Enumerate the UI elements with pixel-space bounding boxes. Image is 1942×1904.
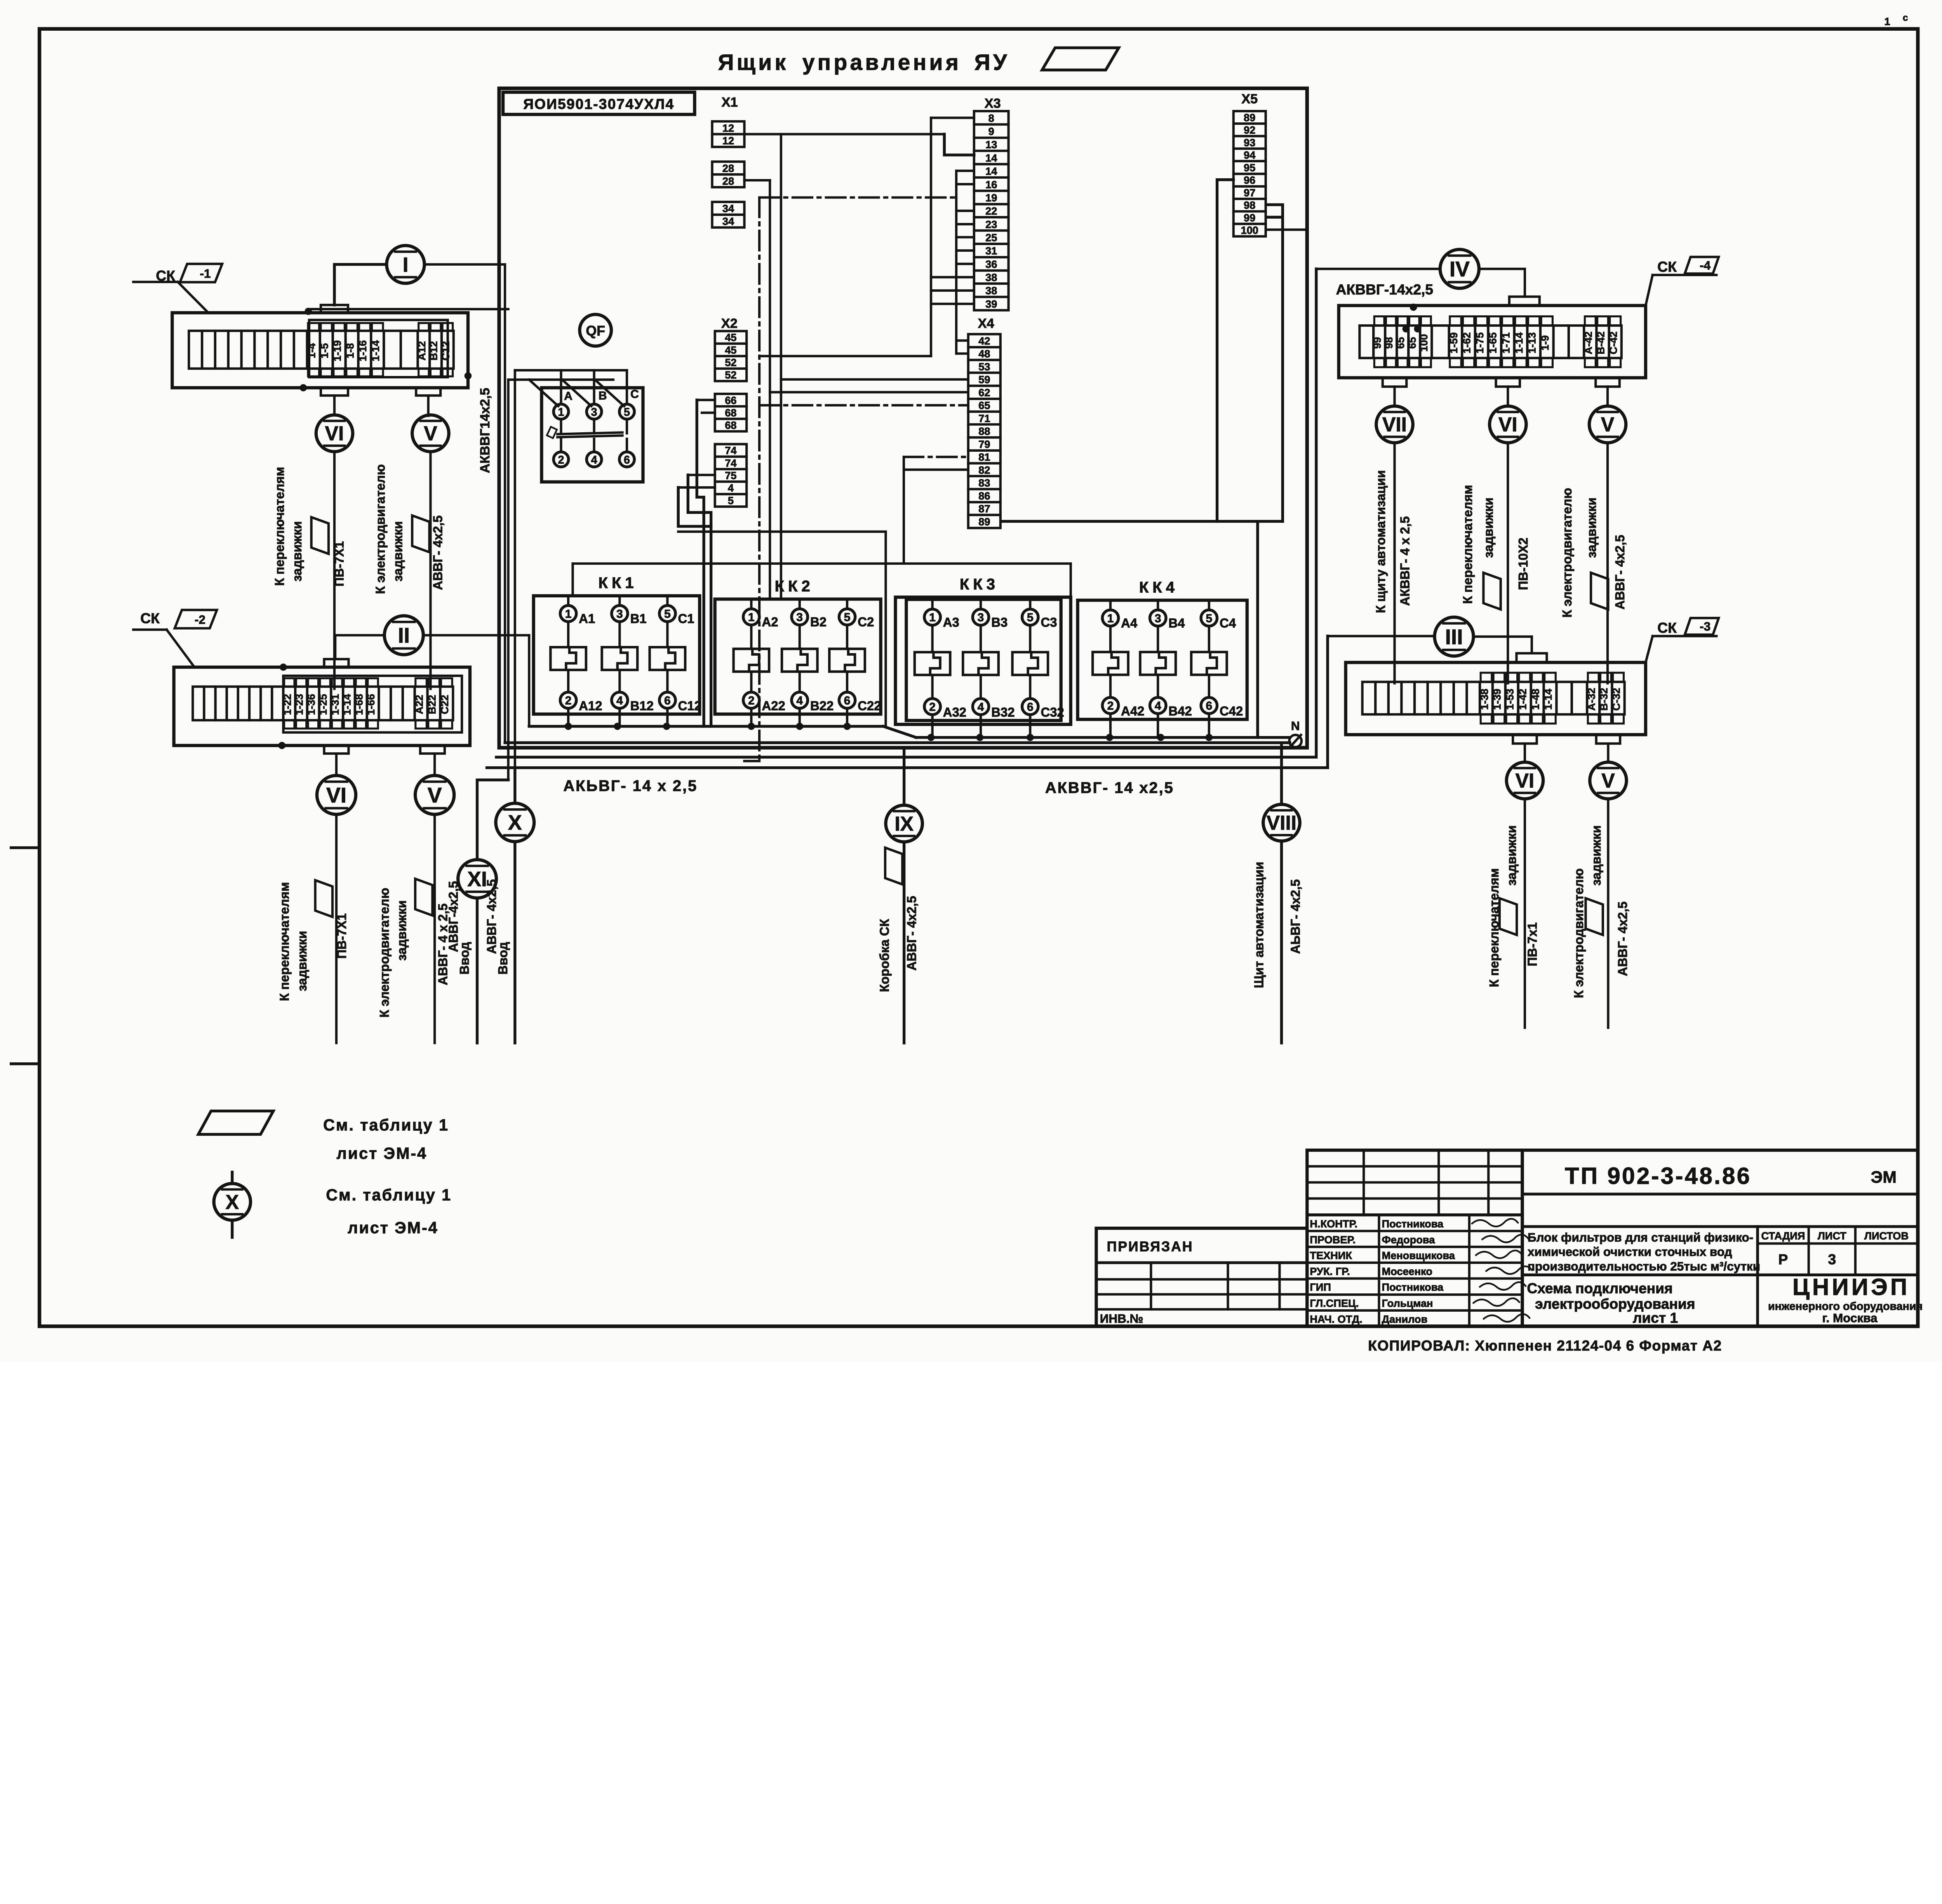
svg-text:V: V bbox=[428, 783, 442, 807]
svg-text:82: 82 bbox=[978, 464, 990, 476]
svg-text:инженерного оборудования: инженерного оборудования bbox=[1768, 1300, 1923, 1312]
svg-text:5: 5 bbox=[728, 494, 734, 506]
svg-text:Р: Р bbox=[1778, 1251, 1788, 1267]
svg-text:А3: А3 bbox=[943, 615, 959, 629]
svg-text:VII: VII bbox=[1382, 413, 1407, 436]
svg-text:I: I bbox=[403, 253, 409, 276]
svg-text:1-25: 1-25 bbox=[317, 694, 329, 715]
svg-text:52: 52 bbox=[725, 357, 736, 369]
svg-text:Данилов: Данилов bbox=[1382, 1313, 1428, 1325]
svg-text:В2: В2 bbox=[810, 615, 827, 629]
svg-text:II: II bbox=[398, 623, 410, 647]
svg-text:2: 2 bbox=[1107, 700, 1114, 712]
svg-text:1-14: 1-14 bbox=[369, 340, 381, 361]
svg-text:С22: С22 bbox=[439, 695, 451, 714]
svg-text:3: 3 bbox=[1828, 1251, 1836, 1267]
svg-text:74: 74 bbox=[725, 444, 736, 456]
svg-text:3: 3 bbox=[1155, 612, 1161, 625]
svg-text:А: А bbox=[564, 390, 573, 403]
svg-text:Схема подключения: Схема подключения bbox=[1527, 1280, 1672, 1297]
svg-text:ПВ-7Х1: ПВ-7Х1 bbox=[332, 541, 346, 587]
svg-text:А22: А22 bbox=[413, 695, 425, 714]
svg-text:VI: VI bbox=[1498, 413, 1517, 436]
svg-text:4: 4 bbox=[616, 694, 623, 707]
svg-text:АКЬВГ- 14 х 2,5: АКЬВГ- 14 х 2,5 bbox=[563, 778, 698, 795]
svg-text:задвижки: задвижки bbox=[290, 521, 304, 581]
svg-text:ТЕХНИК: ТЕХНИК bbox=[1310, 1250, 1352, 1262]
svg-text:ПВ-7Х1: ПВ-7Х1 bbox=[334, 913, 349, 959]
svg-text:С4: С4 bbox=[1220, 616, 1236, 630]
svg-text:98: 98 bbox=[1383, 337, 1395, 349]
svg-text:6: 6 bbox=[1027, 701, 1034, 714]
svg-text:с: с bbox=[1903, 13, 1908, 23]
svg-text:К электродвигателю: К электродвигателю bbox=[1571, 868, 1586, 998]
svg-text:86: 86 bbox=[978, 490, 990, 502]
svg-text:45: 45 bbox=[725, 331, 736, 343]
svg-text:АКВВГ14х2,5: АКВВГ14х2,5 bbox=[478, 388, 492, 473]
svg-text:65: 65 bbox=[978, 399, 990, 411]
svg-text:59: 59 bbox=[978, 374, 990, 386]
svg-text:1-14: 1-14 bbox=[1513, 332, 1525, 353]
svg-text:задвижки: задвижки bbox=[1584, 498, 1599, 558]
svg-text:1-23: 1-23 bbox=[293, 694, 305, 715]
svg-text:ТП 902-3-48.86: ТП 902-3-48.86 bbox=[1565, 1163, 1751, 1189]
svg-text:ПРИВЯЗАН: ПРИВЯЗАН bbox=[1107, 1239, 1194, 1255]
svg-text:С1: С1 bbox=[678, 611, 694, 626]
svg-text:19: 19 bbox=[985, 191, 997, 204]
svg-text:химической очистки сточных вод: химической очистки сточных вод bbox=[1528, 1245, 1732, 1259]
svg-text:Ввод: Ввод bbox=[496, 942, 510, 975]
svg-text:АКВВГ- 4 х 2,5: АКВВГ- 4 х 2,5 bbox=[1397, 516, 1412, 606]
svg-text:РУК. ГР.: РУК. ГР. bbox=[1310, 1265, 1350, 1277]
svg-text:Постникова: Постникова bbox=[1382, 1218, 1444, 1230]
svg-text:1-59: 1-59 bbox=[1448, 332, 1460, 353]
svg-text:задвижки: задвижки bbox=[295, 931, 309, 991]
svg-text:АВВГ- 4х2,5: АВВГ- 4х2,5 bbox=[1613, 535, 1627, 609]
svg-text:X: X bbox=[508, 811, 522, 834]
svg-text:3: 3 bbox=[978, 611, 984, 624]
svg-text:100: 100 bbox=[1418, 334, 1430, 352]
svg-text:3: 3 bbox=[796, 611, 803, 624]
svg-text:В: В bbox=[599, 389, 607, 402]
svg-text:IV: IV bbox=[1450, 257, 1470, 281]
svg-text:А1: А1 bbox=[579, 611, 595, 626]
svg-text:V: V bbox=[424, 422, 437, 445]
svg-text:6: 6 bbox=[844, 694, 851, 707]
svg-text:А12: А12 bbox=[579, 699, 602, 713]
svg-text:СК: СК bbox=[1657, 620, 1677, 636]
svg-text:АВВГ- 4х2,5: АВВГ- 4х2,5 bbox=[1615, 902, 1630, 976]
svg-text:Мосеенко: Мосеенко bbox=[1382, 1265, 1432, 1277]
svg-text:34: 34 bbox=[722, 202, 734, 214]
svg-text:4: 4 bbox=[796, 694, 803, 707]
svg-text:89: 89 bbox=[978, 515, 990, 527]
svg-text:14: 14 bbox=[985, 165, 997, 177]
svg-text:В32: В32 bbox=[991, 705, 1015, 719]
svg-text:ПВ-10Х2: ПВ-10Х2 bbox=[1516, 538, 1530, 590]
svg-text:КОПИРОВАЛ: Хюппенен 21124-04: КОПИРОВАЛ: Хюппенен 21124-04 6 Формат А2 bbox=[1368, 1337, 1722, 1354]
svg-text:1: 1 bbox=[929, 611, 936, 624]
svg-text:36: 36 bbox=[985, 258, 997, 270]
svg-text:А4: А4 bbox=[1121, 616, 1138, 630]
svg-text:См. таблицу 1: См. таблицу 1 bbox=[326, 1186, 452, 1204]
svg-text:задвижки: задвижки bbox=[390, 521, 405, 581]
svg-text:X2: X2 bbox=[721, 316, 738, 331]
svg-text:34: 34 bbox=[722, 215, 734, 227]
svg-text:28: 28 bbox=[722, 162, 734, 174]
svg-text:производительностью 25тыс м³/с: производительностью 25тыс м³/сутки bbox=[1528, 1260, 1760, 1273]
svg-text:-2: -2 bbox=[195, 613, 205, 627]
svg-text:95: 95 bbox=[1244, 162, 1255, 174]
svg-text:14: 14 bbox=[985, 152, 997, 164]
svg-text:1-13: 1-13 bbox=[1526, 332, 1538, 353]
svg-text:1: 1 bbox=[1885, 15, 1890, 27]
svg-text:66: 66 bbox=[725, 394, 736, 406]
svg-text:1: 1 bbox=[558, 406, 564, 419]
svg-text:Блок фильтров для станций физи: Блок фильтров для станций физико- bbox=[1528, 1230, 1753, 1244]
svg-text:КК2: КК2 bbox=[775, 578, 814, 595]
svg-text:1-8: 1-8 bbox=[344, 343, 356, 359]
svg-text:53: 53 bbox=[978, 360, 990, 372]
svg-text:68: 68 bbox=[725, 407, 736, 419]
svg-text:К переключателям: К переключателям bbox=[272, 467, 287, 586]
svg-text:93: 93 bbox=[1244, 136, 1255, 148]
svg-text:1-65: 1-65 bbox=[1487, 332, 1499, 353]
svg-text:65: 65 bbox=[1394, 337, 1406, 349]
svg-text:1-68: 1-68 bbox=[353, 694, 365, 715]
svg-text:А12: А12 bbox=[416, 341, 428, 360]
svg-text:79: 79 bbox=[978, 438, 990, 450]
svg-text:1-14: 1-14 bbox=[1542, 689, 1554, 710]
svg-text:92: 92 bbox=[1244, 124, 1255, 136]
svg-text:1-42: 1-42 bbox=[1516, 689, 1528, 710]
svg-text:АЬВГ- 4х2,5: АЬВГ- 4х2,5 bbox=[1288, 879, 1303, 954]
svg-text:1-19: 1-19 bbox=[331, 340, 343, 361]
svg-text:ЯУ: ЯУ bbox=[974, 50, 1010, 75]
svg-text:К щиту автоматизации: К щиту автоматизации bbox=[1373, 470, 1388, 613]
svg-text:задвижки: задвижки bbox=[1504, 825, 1519, 886]
svg-text:VIII: VIII bbox=[1267, 811, 1296, 834]
svg-text:45: 45 bbox=[725, 344, 736, 356]
svg-text:Меновщикова: Меновщикова bbox=[1382, 1250, 1455, 1262]
svg-text:1-14: 1-14 bbox=[341, 694, 353, 715]
svg-text:1-16: 1-16 bbox=[357, 340, 369, 361]
svg-text:СТАДИЯ: СТАДИЯ bbox=[1761, 1230, 1805, 1242]
svg-text:71: 71 bbox=[978, 412, 990, 424]
svg-text:75: 75 bbox=[725, 470, 736, 482]
svg-text:К электродвигателю: К электродвигателю bbox=[373, 464, 387, 594]
svg-text:А-42: А-42 bbox=[1582, 331, 1594, 354]
svg-text:25: 25 bbox=[985, 231, 997, 244]
svg-text:г. Москва: г. Москва bbox=[1822, 1311, 1878, 1325]
svg-text:Федорова: Федорова bbox=[1382, 1234, 1436, 1246]
svg-text:Гольцман: Гольцман bbox=[1382, 1297, 1433, 1309]
svg-text:задвижки: задвижки bbox=[394, 900, 409, 961]
svg-text:АВВГ- 4х2,5: АВВГ- 4х2,5 bbox=[904, 896, 919, 971]
svg-text:В12: В12 bbox=[428, 341, 440, 360]
svg-text:Щит автоматизации: Щит автоматизации bbox=[1251, 861, 1266, 988]
svg-text:С22: С22 bbox=[858, 699, 881, 713]
svg-text:1: 1 bbox=[1107, 612, 1114, 625]
svg-text:74: 74 bbox=[725, 457, 736, 469]
svg-text:С: С bbox=[630, 388, 639, 401]
svg-text:В-32: В-32 bbox=[1598, 688, 1610, 711]
svg-text:КК4: КК4 bbox=[1139, 579, 1178, 596]
svg-text:2: 2 bbox=[558, 454, 564, 466]
svg-text:96: 96 bbox=[1244, 174, 1255, 186]
svg-text:48: 48 bbox=[978, 348, 990, 360]
svg-text:КК3: КК3 bbox=[960, 576, 999, 593]
svg-text:1-9: 1-9 bbox=[1539, 335, 1551, 350]
svg-text:9: 9 bbox=[988, 125, 994, 137]
svg-text:В42: В42 bbox=[1168, 704, 1192, 718]
svg-text:Постникова: Постникова bbox=[1382, 1281, 1444, 1293]
svg-text:12: 12 bbox=[722, 122, 734, 134]
svg-text:лист ЭМ-4: лист ЭМ-4 bbox=[337, 1144, 427, 1162]
svg-text:СК: СК bbox=[140, 610, 160, 627]
svg-text:ПРОВЕР.: ПРОВЕР. bbox=[1310, 1234, 1356, 1246]
svg-text:-1: -1 bbox=[200, 267, 211, 280]
svg-text:N: N bbox=[1291, 719, 1300, 733]
svg-text:94: 94 bbox=[1244, 149, 1255, 161]
svg-text:5: 5 bbox=[664, 607, 671, 620]
svg-text:В-42: В-42 bbox=[1595, 331, 1607, 354]
svg-text:89: 89 bbox=[1244, 111, 1255, 124]
svg-text:87: 87 bbox=[978, 503, 990, 515]
svg-text:С12: С12 bbox=[678, 699, 701, 713]
svg-text:X3: X3 bbox=[985, 96, 1001, 111]
svg-text:ЛИСТ: ЛИСТ bbox=[1818, 1230, 1847, 1242]
svg-text:X5: X5 bbox=[1241, 92, 1258, 106]
svg-text:22: 22 bbox=[985, 205, 997, 217]
svg-text:12: 12 bbox=[722, 135, 734, 147]
svg-text:4: 4 bbox=[1155, 700, 1161, 712]
svg-text:6: 6 bbox=[624, 454, 630, 466]
svg-text:А32: А32 bbox=[943, 705, 966, 719]
svg-text:Н.КОНТР.: Н.КОНТР. bbox=[1310, 1218, 1357, 1230]
svg-text:5: 5 bbox=[1027, 611, 1034, 624]
svg-text:16: 16 bbox=[985, 178, 997, 190]
svg-text:3: 3 bbox=[616, 607, 623, 620]
svg-text:А-32: А-32 bbox=[1585, 688, 1597, 711]
svg-text:X: X bbox=[226, 1190, 239, 1213]
svg-text:А2: А2 bbox=[762, 615, 778, 629]
svg-text:С-42: С-42 bbox=[1607, 331, 1619, 354]
svg-text:СК: СК bbox=[1657, 258, 1677, 275]
svg-text:АВВГ- 4 х 2,5: АВВГ- 4 х 2,5 bbox=[435, 903, 450, 985]
svg-text:1-31: 1-31 bbox=[329, 694, 341, 715]
svg-text:ГЛ.СПЕЦ.: ГЛ.СПЕЦ. bbox=[1310, 1297, 1359, 1309]
svg-text:QF: QF bbox=[586, 323, 605, 339]
svg-text:28: 28 bbox=[722, 175, 734, 187]
svg-text:ЭМ: ЭМ bbox=[1871, 1168, 1897, 1187]
svg-text:1-36: 1-36 bbox=[305, 694, 317, 715]
svg-text:100: 100 bbox=[1241, 224, 1258, 236]
svg-text:С2: С2 bbox=[858, 615, 874, 629]
svg-text:4: 4 bbox=[728, 482, 734, 494]
svg-text:В3: В3 bbox=[991, 615, 1008, 629]
svg-text:1-75: 1-75 bbox=[1474, 332, 1486, 353]
svg-text:13: 13 bbox=[985, 139, 997, 151]
svg-text:99: 99 bbox=[1244, 212, 1255, 224]
svg-text:VI: VI bbox=[1516, 769, 1535, 792]
svg-text:52: 52 bbox=[725, 369, 736, 381]
svg-text:лист ЭМ-4: лист ЭМ-4 bbox=[348, 1218, 438, 1237]
svg-text:Ящик: Ящик bbox=[718, 50, 788, 75]
svg-text:39: 39 bbox=[985, 298, 997, 310]
svg-text:-4: -4 bbox=[1700, 259, 1711, 272]
svg-text:1-39: 1-39 bbox=[1491, 689, 1503, 710]
svg-text:К электродвигателю: К электродвигателю bbox=[1560, 488, 1574, 618]
svg-text:1: 1 bbox=[748, 611, 755, 624]
svg-text:V: V bbox=[1601, 769, 1615, 792]
svg-text:83: 83 bbox=[978, 477, 990, 489]
svg-text:62: 62 bbox=[978, 386, 990, 399]
svg-text:К переключателям: К переключателям bbox=[277, 882, 292, 1001]
svg-text:1-22: 1-22 bbox=[281, 694, 293, 715]
svg-text:ЯОИ5901-3074УХЛ4: ЯОИ5901-3074УХЛ4 bbox=[523, 96, 674, 112]
svg-text:задвижки: задвижки bbox=[1589, 825, 1603, 886]
svg-text:1-71: 1-71 bbox=[1500, 332, 1512, 353]
svg-text:С12: С12 bbox=[439, 341, 451, 360]
svg-text:42: 42 bbox=[978, 335, 990, 347]
svg-text:81: 81 bbox=[978, 451, 990, 463]
svg-text:АКВВГ- 14 х2,5: АКВВГ- 14 х2,5 bbox=[1045, 780, 1174, 797]
svg-text:4: 4 bbox=[591, 454, 597, 466]
svg-text:VI: VI bbox=[325, 422, 344, 445]
svg-text:1-53: 1-53 bbox=[1504, 689, 1516, 710]
svg-text:6: 6 bbox=[1206, 700, 1212, 712]
svg-text:99: 99 bbox=[1371, 337, 1383, 349]
svg-text:VI: VI bbox=[326, 783, 346, 807]
svg-text:68: 68 bbox=[725, 419, 736, 431]
svg-text:АКВВГ-14х2,5: АКВВГ-14х2,5 bbox=[1336, 281, 1433, 298]
svg-text:В22: В22 bbox=[810, 699, 834, 713]
svg-text:лист 1: лист 1 bbox=[1633, 1309, 1678, 1326]
svg-text:IX: IX bbox=[894, 812, 914, 835]
svg-text:С-32: С-32 bbox=[1610, 688, 1622, 711]
svg-text:V: V bbox=[1601, 413, 1614, 436]
svg-text:1-5: 1-5 bbox=[318, 343, 331, 359]
svg-text:ЦНИИЭП: ЦНИИЭП bbox=[1792, 1274, 1910, 1300]
svg-text:1: 1 bbox=[565, 607, 572, 620]
svg-text:97: 97 bbox=[1244, 186, 1255, 198]
svg-text:2: 2 bbox=[565, 694, 572, 707]
svg-text:С32: С32 bbox=[1041, 705, 1064, 719]
svg-text:В12: В12 bbox=[630, 699, 654, 713]
svg-text:ГИП: ГИП bbox=[1310, 1281, 1331, 1293]
svg-text:А22: А22 bbox=[762, 699, 785, 713]
svg-text:К переключателям: К переключателям bbox=[1460, 485, 1475, 604]
svg-text:1-48: 1-48 bbox=[1529, 689, 1541, 710]
svg-text:1-38: 1-38 bbox=[1478, 689, 1490, 710]
svg-text:1-62: 1-62 bbox=[1460, 332, 1472, 353]
svg-text:4: 4 bbox=[978, 701, 984, 714]
svg-text:управления: управления bbox=[802, 50, 961, 75]
svg-text:1-4: 1-4 bbox=[306, 343, 318, 359]
svg-text:III: III bbox=[1445, 625, 1463, 649]
svg-text:X4: X4 bbox=[978, 316, 994, 331]
svg-text:А42: А42 bbox=[1121, 704, 1144, 718]
svg-text:5: 5 bbox=[1206, 612, 1212, 625]
svg-text:3: 3 bbox=[591, 406, 597, 419]
svg-text:-3: -3 bbox=[1700, 620, 1711, 634]
svg-text:Коробка СК: Коробка СК bbox=[877, 919, 891, 992]
svg-text:2: 2 bbox=[748, 694, 755, 707]
svg-text:К электродвигателю: К электродвигателю bbox=[377, 888, 392, 1018]
svg-text:31: 31 bbox=[985, 245, 997, 257]
svg-text:1-66: 1-66 bbox=[365, 694, 377, 715]
svg-text:В22: В22 bbox=[426, 695, 438, 714]
svg-text:С42: С42 bbox=[1220, 704, 1243, 718]
svg-text:8: 8 bbox=[988, 112, 994, 124]
svg-text:В1: В1 bbox=[630, 611, 647, 626]
svg-text:2: 2 bbox=[929, 701, 936, 714]
svg-text:ЛИСТОВ: ЛИСТОВ bbox=[1864, 1230, 1909, 1242]
svg-text:ПВ-7х1: ПВ-7х1 bbox=[1525, 922, 1540, 966]
svg-text:С3: С3 bbox=[1041, 615, 1057, 629]
svg-text:ИНВ.№: ИНВ.№ bbox=[1100, 1312, 1143, 1325]
svg-text:XI: XI bbox=[467, 867, 487, 891]
svg-text:23: 23 bbox=[985, 218, 997, 230]
svg-text:38: 38 bbox=[985, 285, 997, 297]
svg-text:X1: X1 bbox=[722, 95, 738, 110]
svg-text:АВВГ- 4х2,5: АВВГ- 4х2,5 bbox=[430, 515, 445, 590]
svg-text:задвижки: задвижки bbox=[1481, 498, 1496, 558]
svg-text:Ввод: Ввод bbox=[457, 942, 472, 975]
svg-text:5: 5 bbox=[844, 611, 851, 624]
svg-text:38: 38 bbox=[985, 272, 997, 284]
svg-text:88: 88 bbox=[978, 425, 990, 437]
svg-text:КК1: КК1 bbox=[599, 574, 638, 592]
svg-text:См. таблицу 1: См. таблицу 1 bbox=[323, 1116, 449, 1134]
svg-text:65: 65 bbox=[1406, 337, 1418, 349]
svg-text:В4: В4 bbox=[1168, 616, 1185, 630]
svg-text:98: 98 bbox=[1244, 199, 1255, 211]
svg-text:6: 6 bbox=[664, 694, 671, 707]
svg-text:НАЧ. ОТД.: НАЧ. ОТД. bbox=[1310, 1313, 1362, 1325]
svg-text:5: 5 bbox=[624, 406, 630, 419]
